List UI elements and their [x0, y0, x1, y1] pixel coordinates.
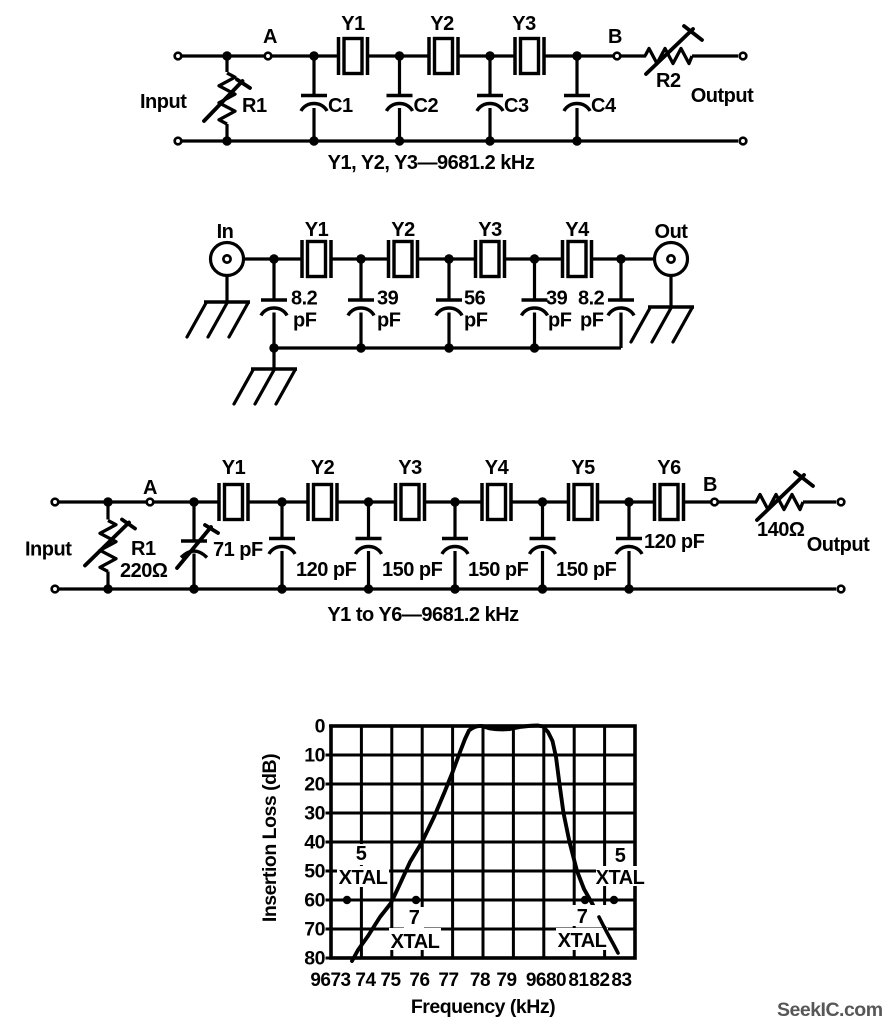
terminal input top: [175, 53, 182, 60]
node A: [265, 53, 272, 60]
svg-text:10: 10: [304, 745, 325, 767]
node junction R1 bottom: [222, 136, 231, 145]
svg-text:60: 60: [304, 890, 325, 912]
crystal Y3 (filter 3): [396, 483, 425, 521]
wire C4 lower stem: [575, 108, 578, 141]
wire cap stem lower (filter 3 #5): [627, 551, 630, 589]
wire C2 upper stem: [398, 56, 401, 96]
wire bus ground stem: [272, 348, 275, 369]
svg-text:R2: R2: [656, 70, 681, 92]
wire cap2 lower stem (filter 2): [359, 313, 362, 349]
svg-text:pF: pF: [548, 310, 572, 332]
marker 7 XTAL left: [412, 896, 420, 904]
capacitor 150 pF (filter 3 #3): [442, 539, 468, 555]
wire C3 lower stem: [488, 108, 491, 141]
svg-text:pF: pF: [580, 310, 604, 332]
wire cap stem lower (filter 3 #2): [367, 551, 370, 589]
terminal output top: [740, 53, 747, 60]
svg-text:pF: pF: [377, 310, 401, 332]
resistor R1 (variable): [204, 56, 250, 141]
node junction C1 bottom: [309, 136, 318, 145]
wire top rail segment 2 (Y1 to Y2): [368, 54, 429, 57]
svg-text:In: In: [217, 221, 234, 243]
node junction C2 bottom: [395, 136, 404, 145]
wire cap stem upper (filter 3 #5): [627, 502, 630, 539]
node junction cap 150 pF bottom (filter 3): [364, 584, 373, 593]
terminal input bottom: [175, 138, 182, 145]
svg-text:70: 70: [304, 919, 325, 941]
svg-text:Output: Output: [807, 534, 870, 556]
svg-text:82: 82: [589, 970, 609, 991]
capacitor 8.2 pF (filter 2): [608, 300, 634, 316]
node junction C1 top: [309, 51, 318, 60]
wire top rail 3 segment 5: [512, 500, 569, 503]
node junction cap 120 pF bottom (filter 3): [624, 584, 633, 593]
wire trimmer upper stem: [192, 502, 195, 541]
node junction cap2 bus: [356, 343, 365, 352]
svg-text:XTAL: XTAL: [558, 930, 607, 952]
svg-text:pF: pF: [293, 310, 317, 332]
svg-text:150 pF: 150 pF: [556, 559, 617, 581]
svg-text:Y4: Y4: [565, 219, 590, 241]
crystal Y1 (filter 3): [219, 483, 248, 521]
y-axis labels 0-80 dB: [304, 716, 325, 970]
node junction cap3 bus: [444, 343, 453, 352]
node B: [614, 53, 621, 60]
capacitor C1: [301, 96, 327, 112]
wire cap stem upper (filter 3 #2): [367, 502, 370, 539]
capacitor 150 pF (filter 3 #2): [356, 539, 382, 555]
wire cap stem lower (filter 3 #4): [541, 551, 544, 589]
capacitor 150 pF (filter 3 #4): [530, 539, 556, 555]
node junction R1 top (filter 3): [103, 497, 112, 506]
svg-text:Y3: Y3: [512, 13, 536, 35]
node A (filter 3): [147, 499, 154, 506]
svg-text:76: 76: [409, 970, 429, 991]
svg-text:Y5: Y5: [571, 457, 595, 479]
node junction cap4 bus: [530, 343, 539, 352]
svg-text:Y4: Y4: [485, 457, 510, 479]
svg-text:81: 81: [568, 970, 589, 991]
wire cap2 upper stem (filter 2): [359, 259, 362, 300]
wire top rail 3 segment 1: [55, 500, 219, 503]
svg-text:20: 20: [304, 774, 325, 796]
resistor R1 220 ohm (variable): [85, 502, 135, 589]
marker 7 XTAL right: [581, 896, 589, 904]
node junction cap 150 pF top (filter 3): [364, 497, 373, 506]
svg-text:9680: 9680: [526, 970, 566, 991]
svg-text:Output: Output: [691, 85, 754, 107]
response curve tail (below 60 dB): [599, 917, 618, 953]
graph grid and axes: [326, 726, 636, 958]
label left 7 XTAL: [389, 907, 441, 953]
svg-text:80: 80: [304, 948, 325, 970]
svg-text:78: 78: [470, 970, 490, 991]
svg-text:Y1: Y1: [341, 13, 365, 35]
connector Out: [655, 243, 688, 276]
svg-text:Insertion Loss (dB): Insertion Loss (dB): [259, 754, 281, 922]
marker 5 XTAL left: [343, 896, 351, 904]
svg-text:56: 56: [464, 288, 486, 310]
svg-text:50: 50: [304, 861, 325, 883]
svg-text:Out: Out: [655, 221, 689, 243]
node junction R1 top: [222, 51, 231, 60]
wire C1 upper stem: [312, 56, 315, 96]
capacitor 71 pF (variable): [177, 525, 218, 568]
svg-text:8.2: 8.2: [578, 288, 605, 310]
svg-text:83: 83: [611, 970, 631, 991]
wire top rail 3 segment 7 (Y6 to 140ohm): [684, 500, 757, 503]
capacitor 39 pF (filter 2): [522, 300, 548, 316]
node junction cap 150 pF top (filter 3): [450, 497, 459, 506]
svg-text:9673: 9673: [310, 970, 350, 991]
node junction trimmer top: [189, 497, 198, 506]
wire top rail 3 segment 2: [249, 500, 308, 503]
terminal input 3 top: [52, 499, 59, 506]
node junction cap 150 pF bottom (filter 3): [450, 584, 459, 593]
svg-text:120 pF: 120 pF: [644, 531, 705, 553]
node junction C3 top: [485, 51, 494, 60]
wire cap stem upper (filter 3 #3): [453, 502, 456, 539]
wire ground bus: [274, 346, 621, 349]
wire trimmer lower stem: [192, 554, 195, 590]
svg-text:A: A: [143, 477, 157, 499]
capacitor 8.2 pF (filter 2): [261, 300, 287, 316]
svg-text:Y3: Y3: [478, 219, 502, 241]
crystal Y3 (filter 2): [476, 240, 505, 278]
wire main line segment 2: [332, 257, 389, 260]
node junction cap 150 pF bottom (filter 3): [538, 584, 547, 593]
wire In ground stem: [225, 276, 228, 303]
capacitor 120 pF (filter 3 #1): [269, 539, 295, 555]
crystal Y3: [515, 37, 544, 75]
resistor R2 (variable): [645, 26, 702, 74]
svg-text:7: 7: [409, 907, 420, 929]
capacitor C2: [387, 96, 413, 112]
node junction cap5 (filter 2): [616, 254, 625, 263]
capacitor C4: [564, 96, 590, 112]
terminal output 3 top: [838, 499, 845, 506]
wire C1 lower stem: [312, 108, 315, 141]
resistor 140 ohm (variable): [756, 472, 813, 520]
svg-text:79: 79: [496, 970, 516, 991]
node junction C2 top: [395, 51, 404, 60]
wire cap5 lower stem (filter 2): [619, 313, 622, 349]
wire cap3 upper stem (filter 2): [447, 259, 450, 300]
marker 5 XTAL right: [610, 896, 618, 904]
svg-text:140Ω: 140Ω: [757, 519, 805, 541]
svg-text:C2: C2: [414, 95, 439, 117]
wire bottom rail 3: [55, 587, 836, 590]
crystal Y4 (filter 2): [563, 240, 592, 278]
wire top rail segment 3 (Y2 to Y3): [459, 54, 515, 57]
node junction trimmer bottom: [189, 584, 198, 593]
svg-text:B: B: [703, 474, 717, 496]
wire main line segment 1: [244, 257, 302, 260]
svg-text:XTAL: XTAL: [391, 931, 440, 953]
x-axis labels 9673-83 kHz: [310, 970, 631, 991]
svg-text:39: 39: [546, 288, 568, 310]
wire cap5 upper stem (filter 2): [619, 259, 622, 300]
node junction cap4 (filter 2): [530, 254, 539, 263]
wire main line segment 4: [505, 257, 562, 260]
svg-text:5: 5: [615, 845, 626, 867]
wire top rail 3 segment 6: [598, 500, 654, 503]
wire R2 to output: [692, 54, 738, 57]
svg-text:150 pF: 150 pF: [382, 559, 443, 581]
wire top rail 3 segment 3: [338, 500, 396, 503]
wire top rail segment 4 (Y3 to R2): [545, 54, 647, 57]
terminal input 3 bottom: [52, 586, 59, 593]
terminal output 3 bottom: [838, 586, 845, 593]
svg-text:C1: C1: [328, 95, 353, 117]
capacitor C3: [477, 96, 503, 112]
node junction C4 top: [572, 51, 581, 60]
crystal Y2 (filter 3): [308, 483, 337, 521]
label right 7 XTAL: [556, 905, 608, 952]
node junction C3 bottom: [485, 136, 494, 145]
capacitor 56 pF (filter 2): [436, 300, 462, 316]
wire C2 lower stem: [398, 108, 401, 141]
svg-text:Y6: Y6: [657, 457, 681, 479]
node junction cap1 (filter 2): [269, 254, 278, 263]
wire cap4 upper stem (filter 2): [533, 259, 536, 300]
svg-text:75: 75: [380, 970, 401, 991]
response curve: [352, 726, 593, 962]
wire cap stem lower (filter 3 #1): [280, 551, 283, 589]
svg-text:R1: R1: [242, 95, 267, 117]
wire cap4 lower stem (filter 2): [533, 313, 536, 349]
svg-text:Input: Input: [140, 91, 187, 113]
crystal Y1: [339, 37, 368, 75]
svg-text:SeekIC.com: SeekIC.com: [777, 999, 883, 1021]
svg-text:C4: C4: [591, 95, 617, 117]
svg-text:5: 5: [356, 843, 367, 865]
crystal Y2: [429, 37, 458, 75]
svg-text:Y2: Y2: [391, 219, 415, 241]
wire main line segment 3: [418, 257, 475, 260]
node junction cap 120 pF bottom (filter 3): [277, 584, 286, 593]
wire top rail segment 1 (input to Y1): [178, 54, 338, 57]
node junction C4 bottom: [572, 136, 581, 145]
crystal Y4 (filter 3): [482, 483, 511, 521]
svg-text:XTAL: XTAL: [596, 867, 645, 889]
wire C4 upper stem: [575, 56, 578, 96]
node junction cap3 (filter 2): [444, 254, 453, 263]
crystal Y5 (filter 3): [569, 483, 598, 521]
wire cap stem upper (filter 3 #4): [541, 502, 544, 539]
terminal output bottom: [740, 138, 747, 145]
svg-text:8.2: 8.2: [291, 288, 318, 310]
node junction cap1 bus: [269, 343, 278, 352]
svg-text:Y2: Y2: [430, 13, 454, 35]
svg-text:0: 0: [315, 716, 326, 738]
crystal Y2 (filter 2): [389, 240, 418, 278]
connector In: [211, 243, 244, 276]
node B (filter 3): [711, 499, 718, 506]
wire cap1 lower stem (filter 2): [272, 313, 275, 349]
svg-text:C3: C3: [504, 95, 529, 117]
svg-text:B: B: [608, 26, 622, 48]
svg-text:30: 30: [304, 803, 325, 825]
node junction cap 150 pF top (filter 3): [538, 497, 547, 506]
wire cap3 lower stem (filter 2): [447, 313, 450, 349]
svg-text:Y1: Y1: [305, 219, 329, 241]
svg-text:pF: pF: [464, 310, 488, 332]
crystal Y6 (filter 3): [655, 483, 684, 521]
node junction R1 bottom (filter 3): [103, 584, 112, 593]
node junction cap 120 pF top (filter 3): [277, 497, 286, 506]
svg-text:74: 74: [355, 970, 376, 991]
svg-text:120 pF: 120 pF: [296, 559, 357, 581]
capacitor 120 pF (filter 3 #5): [616, 539, 642, 555]
crystal Y1 (filter 2): [302, 240, 331, 278]
label left 5 XTAL: [337, 843, 389, 889]
svg-text:150 pF: 150 pF: [468, 559, 529, 581]
wire bottom rail: [178, 139, 738, 142]
ground under Out: [631, 307, 694, 342]
svg-text:7: 7: [577, 906, 588, 928]
wire cap stem lower (filter 3 #3): [453, 551, 456, 589]
svg-text:Y3: Y3: [398, 457, 422, 479]
capacitor 39 pF (filter 2): [348, 300, 374, 316]
wire cap1 upper stem (filter 2): [272, 259, 275, 300]
svg-text:A: A: [263, 26, 277, 48]
svg-text:XTAL: XTAL: [339, 867, 388, 889]
node junction cap2 (filter 2): [356, 254, 365, 263]
wire 140ohm to output: [803, 500, 836, 503]
svg-text:Input: Input: [25, 539, 72, 561]
svg-text:Y1: Y1: [222, 457, 246, 479]
svg-text:71 pF: 71 pF: [213, 539, 263, 561]
svg-text:220Ω: 220Ω: [120, 560, 168, 582]
svg-text:R1: R1: [131, 538, 156, 560]
wire Out ground stem: [669, 276, 672, 308]
node junction cap 120 pF top (filter 3): [624, 497, 633, 506]
svg-text:Y2: Y2: [311, 457, 335, 479]
svg-text:77: 77: [438, 970, 458, 991]
wire C3 upper stem: [488, 56, 491, 96]
wire cap stem upper (filter 3 #1): [280, 502, 283, 539]
svg-text:40: 40: [304, 832, 325, 854]
svg-text:39: 39: [377, 288, 399, 310]
label right 5 XTAL: [596, 845, 645, 889]
svg-text:Frequency (kHz): Frequency (kHz): [411, 996, 555, 1018]
ground under In: [187, 302, 250, 337]
wire top rail 3 segment 4: [425, 500, 482, 503]
wire main line segment 5: [592, 257, 654, 260]
svg-text:Y1, Y2, Y3—9681.2 kHz: Y1, Y2, Y3—9681.2 kHz: [328, 152, 535, 174]
ground under bus: [234, 369, 297, 404]
svg-text:Y1 to Y6—9681.2 kHz: Y1 to Y6—9681.2 kHz: [327, 604, 519, 626]
